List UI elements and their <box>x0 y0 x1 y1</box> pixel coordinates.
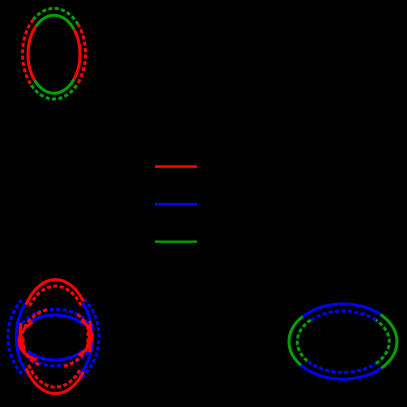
bottom-left cluster: big blue solid ellipse, left arc <box>16 303 30 376</box>
top-left cluster: outer dashed track, red left arc <box>22 20 33 86</box>
bottom-left cluster: inner blue solid ellipse, top arc <box>31 315 83 325</box>
top-left cluster: outer dashed track, red right arc <box>78 25 85 83</box>
legend: red line <box>155 165 197 168</box>
bottom-left cluster: tall red solid ellipse, left tip arc <box>20 323 21 351</box>
bottom-right cluster: outer solid track, blue bottom arc <box>301 365 381 379</box>
bottom-left cluster: tall red dashed ellipse, bottom arc <box>29 365 82 387</box>
bottom-right cluster: inner dashed track, blue bottom arc <box>308 362 376 373</box>
bottom-left cluster: tall red solid ellipse, right tip arc <box>90 321 91 352</box>
bottom-left cluster: red dashed lens ellipse (tilted), right arc <box>64 313 89 366</box>
bottom-left cluster: tall red dashed ellipse, left tip dashes <box>23 338 24 351</box>
legend: blue line <box>155 203 197 206</box>
bottom-right cluster: outer solid track, green right arc <box>381 315 397 369</box>
bottom-right cluster: outer solid track, green left arc <box>289 316 303 365</box>
bottom-left cluster: red solid lens ellipse (tilted), right arc <box>78 321 92 356</box>
bottom-left cluster: tall red solid ellipse, top arc <box>26 280 83 305</box>
top-left cluster: inner solid track, green top arc <box>36 15 74 29</box>
bottom-left cluster: big blue solid ellipse, right arc <box>79 303 93 376</box>
top-left cluster: inner solid track, red left arc <box>28 26 36 80</box>
bottom-left cluster: big blue dashed ellipse, left arc <box>8 300 23 375</box>
bottom-left cluster: red solid lens ellipse (tilted), left arc <box>19 322 37 359</box>
bottom-left cluster: tall red dashed ellipse, top arc <box>29 286 82 308</box>
bottom-left cluster: inner blue dashed ellipse, bottom arc <box>22 352 88 366</box>
top-left cluster: inner solid track, red right arc <box>74 29 80 79</box>
top-left cluster: outer dashed track, green top arc <box>33 8 78 24</box>
bottom-right cluster: outer solid track, blue top arc <box>303 304 381 316</box>
bottom-right cluster: inner dashed track, blue top arc <box>311 311 376 320</box>
bottom-left cluster: red dashed lens ellipse (tilted), left arc <box>22 310 47 366</box>
bottom-left cluster: inner blue dashed ellipse, top arc <box>22 309 88 323</box>
top-left cluster: inner solid track, green bottom arc <box>35 79 74 93</box>
legend: green line <box>155 240 197 242</box>
bottom-left cluster: tall red dashed ellipse, right tip dashes <box>86 326 90 349</box>
bottom-right cluster: inner dashed track, green right arc <box>376 320 389 363</box>
bottom-left cluster: tall red solid ellipse, bottom arc <box>26 368 83 393</box>
bottom-left cluster: big blue dashed ellipse, right arc <box>82 300 99 378</box>
top-left cluster: outer dashed track, green bottom arc <box>31 83 78 99</box>
bottom-left cluster: inner blue solid ellipse, bottom arc <box>28 350 83 360</box>
bottom-right cluster: inner dashed track, green left arc <box>297 320 310 362</box>
